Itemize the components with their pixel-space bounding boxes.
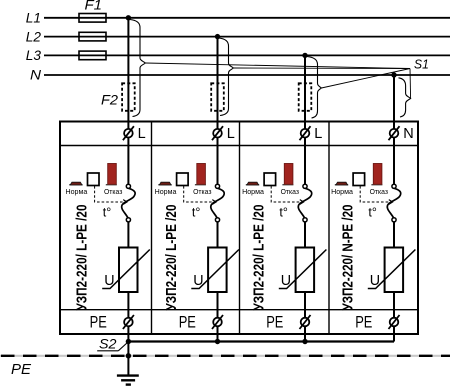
switch thermal disconnect module 1	[122, 188, 135, 217]
wire varistor to PE terminal module 4	[393, 292, 395, 318]
switch thermal disconnect module 3	[298, 188, 311, 217]
svg-text:PE: PE	[355, 314, 372, 332]
wire N feed line	[44, 74, 450, 76]
wire S1 mechanical link from module 3	[321, 69, 410, 89]
svg-text:U: U	[193, 273, 203, 289]
indicator window (white square) module 1	[88, 173, 100, 186]
indicator "Норма" flag (down) module 4	[335, 184, 348, 185]
node junction dot L3 tap	[302, 53, 307, 58]
svg-text:U: U	[370, 273, 380, 289]
svg-text:t°: t°	[192, 206, 200, 220]
svg-text:Норма: Норма	[66, 187, 88, 196]
wire S1 mechanical link from module 4	[409, 69, 412, 99]
wire module separator 1	[151, 122, 153, 335]
wire drop from L1 to module 1 terminal	[127, 18, 129, 184]
terminal L (top) of module 1	[124, 129, 133, 138]
indicator window (white square) module 4	[353, 173, 365, 186]
svg-text:t°: t°	[368, 206, 376, 220]
brace: plug-in connector of module 2	[219, 38, 234, 116]
wire contact to varistor module 1	[127, 222, 129, 248]
indicator "Отказ" flag (up, red) module 2	[195, 184, 206, 185]
svg-text:УЗП2-220/ L-PE /20: УЗП2-220/ L-PE /20	[251, 204, 267, 310]
wire PE terminal to bus module 1	[127, 326, 129, 342]
wire S1 mechanical link from module 1	[145, 63, 410, 69]
terminal PE (bottom) module 2	[213, 318, 222, 327]
svg-text:PE: PE	[11, 361, 32, 378]
node PE line junction dot	[126, 353, 131, 358]
wire bus to earth	[127, 342, 129, 376]
fuse F1 pole 3 on L3	[79, 51, 106, 60]
wire varistor to PE terminal module 3	[304, 292, 306, 318]
svg-text:Отказ: Отказ	[370, 187, 389, 196]
svg-text:PE: PE	[90, 314, 107, 332]
terminal L (top) of module 3	[301, 129, 310, 138]
wire module separator 2	[239, 122, 241, 335]
wire dashed link indicator to thermal release module 3	[271, 186, 302, 202]
svg-text:N: N	[30, 68, 41, 83]
svg-text:L: L	[227, 126, 235, 142]
wire contact to varistor module 3	[304, 222, 306, 248]
svg-text:F2: F2	[101, 92, 118, 108]
node junction dot L1 tap	[126, 15, 131, 20]
wire S1 mechanical link from module 2	[233, 67, 410, 70]
svg-text:Норма: Норма	[155, 187, 177, 196]
svg-text:Отказ: Отказ	[193, 187, 212, 196]
wire module separator 3	[328, 122, 330, 335]
indicator "Отказ" flag (up, red) module 4	[371, 184, 382, 185]
terminal N (top) of module 4	[390, 129, 399, 138]
wire drop from L2 to module 2 terminal	[217, 37, 219, 184]
module assembly outer frame	[60, 122, 418, 335]
svg-text:PE: PE	[179, 314, 196, 332]
svg-text:Отказ: Отказ	[104, 187, 123, 196]
varistor U of module 4 (УЗП2-220)	[385, 248, 404, 293]
wire L3 feed line	[44, 54, 450, 56]
node bus junction dot x=217.5	[215, 339, 220, 344]
terminal PE (bottom) module 4	[390, 318, 399, 327]
wire varistor to PE terminal module 2	[217, 292, 219, 318]
wire dashed link indicator to thermal release module 2	[184, 186, 215, 202]
svg-text:N: N	[403, 126, 413, 142]
varistor U of module 3 (УЗП2-220)	[296, 248, 315, 293]
indicator window (white square) module 3	[264, 173, 276, 186]
brace: plug-in connector of module 4	[399, 78, 411, 117]
svg-text:S1: S1	[414, 57, 429, 72]
fuse F2 pole 2 (built-in, dashed)	[211, 83, 224, 111]
svg-text:Норма: Норма	[242, 187, 264, 196]
wire PE terminal to bus module 4	[393, 326, 395, 342]
indicator "Норма" flag (down) module 2	[158, 184, 171, 185]
indicator "Отказ" flag (up, red) module 1	[106, 184, 117, 185]
fuse F1 pole 1 on L1	[79, 14, 106, 23]
svg-text:УЗП2-220/ N-PE /20: УЗП2-220/ N-PE /20	[340, 204, 356, 310]
node junction dot L2 tap	[215, 34, 220, 39]
indicator "Норма" flag (down) module 3	[246, 184, 259, 185]
svg-text:УЗП2-220/ L-PE /20: УЗП2-220/ L-PE /20	[75, 204, 91, 310]
wire dashed link indicator to thermal release module 1	[95, 186, 126, 202]
indicator "Норма" flag (down) module 1	[69, 184, 82, 185]
varistor U of module 2 (УЗП2-220)	[208, 248, 227, 293]
ground	[117, 374, 139, 376]
indicator window (white square) module 2	[177, 173, 189, 186]
wire dashed link indicator to thermal release module 4	[360, 186, 391, 202]
svg-text:L3: L3	[26, 48, 42, 63]
svg-text:L1: L1	[26, 11, 41, 26]
svg-text:УЗП2-220/ L-PE /20: УЗП2-220/ L-PE /20	[164, 204, 180, 310]
wire drop from L3 to module 3 terminal	[304, 55, 306, 184]
wire contact to varistor module 2	[217, 222, 219, 248]
fuse F2 pole 3 (built-in, dashed)	[299, 83, 312, 111]
svg-text:U: U	[281, 273, 291, 289]
terminal PE (bottom) module 3	[301, 318, 310, 327]
wire L2 feed line	[44, 36, 450, 38]
terminal L (top) of module 2	[213, 129, 222, 138]
wire PE terminal to bus module 3	[304, 326, 306, 342]
wire drop from N to module 4 terminal	[393, 75, 395, 184]
switch thermal disconnect module 4	[387, 188, 400, 217]
wire header row line	[60, 145, 418, 147]
wire contact to varistor module 4	[393, 222, 395, 248]
svg-text:t°: t°	[103, 206, 111, 220]
varistor U of module 1 (УЗП2-220)	[119, 248, 138, 293]
wire PE main (dashed)	[0, 355, 450, 357]
svg-text:U: U	[104, 273, 114, 289]
wire S2 leader	[118, 343, 127, 351]
wire varistor to PE terminal module 1	[127, 292, 129, 318]
node bus junction dot x=128.4	[126, 339, 131, 344]
svg-text:PE: PE	[266, 314, 283, 332]
switch thermal disconnect module 2	[211, 188, 224, 217]
svg-text:L: L	[138, 126, 146, 142]
indicator "Отказ" flag (up, red) module 3	[282, 184, 293, 185]
svg-text:L2: L2	[26, 29, 42, 44]
svg-text:F1: F1	[85, 0, 103, 13]
brace: plug-in connector of module 3	[307, 57, 321, 119]
svg-text:Отказ: Отказ	[281, 187, 300, 196]
fuse F1 pole 2 on L2	[79, 32, 106, 41]
svg-text:Норма: Норма	[331, 187, 353, 196]
svg-text:L: L	[314, 126, 322, 142]
node bus junction dot x=305.0	[302, 339, 307, 344]
node junction dot N tap	[391, 72, 396, 77]
wire PE row line	[60, 309, 418, 311]
svg-text:S2: S2	[99, 337, 117, 352]
terminal PE (bottom) module 1	[124, 318, 133, 327]
wire PE collecting bus	[128, 340, 394, 342]
wire PE terminal to bus module 2	[217, 326, 219, 342]
svg-text:t°: t°	[279, 206, 287, 220]
wire L1 feed line	[44, 17, 450, 19]
fuse F2 pole 1 (built-in, dashed)	[122, 83, 135, 111]
brace: plug-in connector of module 1	[130, 20, 145, 117]
